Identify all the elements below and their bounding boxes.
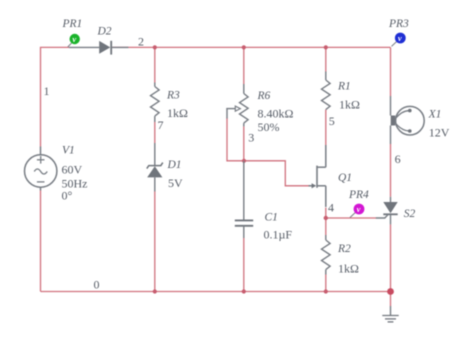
svg-text:V1: V1 (62, 145, 75, 157)
svg-text:1kΩ: 1kΩ (338, 262, 359, 276)
svg-text:2: 2 (138, 35, 144, 49)
junction bottom bus / ground (387, 288, 394, 295)
svg-text:S2: S2 (404, 208, 416, 220)
wire R6 bottom to wiper node (243, 126, 245, 160)
svg-text:3: 3 (248, 131, 254, 145)
transistor Q1 JFET (309, 145, 326, 207)
junction top bus / R1 (324, 45, 328, 49)
svg-text:1kΩ: 1kΩ (167, 106, 188, 120)
svg-text:0.1µF: 0.1µF (264, 228, 293, 242)
wire top bus: V1 to D2 anode (41, 47, 70, 146)
svg-text:0°: 0° (62, 189, 73, 203)
wire top bus: D2 cathode to PR3 corner (111, 46, 390, 48)
wire Q1 source to node 4 (325, 208, 327, 218)
resistor R1 (321, 72, 330, 110)
svg-text:R3: R3 (166, 90, 180, 102)
junction bottom bus / R2 branch (324, 289, 328, 293)
SCR S2 (376, 197, 398, 225)
resistor R2 (321, 235, 330, 275)
svg-text:R6: R6 (257, 90, 271, 102)
V1 AC source (25, 147, 57, 191)
svg-text:PR4: PR4 (348, 189, 369, 201)
svg-text:R1: R1 (337, 81, 351, 93)
wire C1 to bottom bus (243, 238, 245, 292)
svg-text:PR3: PR3 (388, 18, 409, 30)
svg-text:1kΩ: 1kΩ (339, 98, 360, 112)
svg-text:Q1: Q1 (338, 172, 352, 184)
wire R6 wiper to Q1 gate (227, 118, 310, 186)
svg-text:D2: D2 (97, 26, 112, 38)
wire bottom bus to ground (390, 292, 392, 307)
svg-text:8.40kΩ: 8.40kΩ (258, 107, 294, 121)
svg-text:50%: 50% (258, 120, 280, 134)
svg-text:X1: X1 (428, 109, 442, 121)
wire net 4: node 4 to S2 gate (326, 217, 376, 219)
junction bottom bus / D1 branch (153, 289, 157, 293)
zener diode D1 (147, 143, 163, 192)
wire R2 to bottom bus (325, 275, 327, 292)
wire left branch V1 to bottom bus (40, 191, 42, 292)
junction wiper node (242, 159, 246, 163)
svg-text:v: v (72, 34, 76, 44)
junction bottom bus / C1 branch (242, 289, 246, 293)
wire net 2: top bus to R3 (154, 47, 156, 82)
wire net 5: top bus to R1 (325, 47, 327, 71)
Q1 gate arrowhead (312, 183, 317, 188)
lamp X1 (391, 96, 425, 144)
resistor R3 (151, 83, 160, 123)
svg-text:6: 6 (395, 152, 401, 166)
svg-text:R2: R2 (337, 243, 351, 255)
svg-text:v: v (357, 204, 361, 214)
wire net 7: R3 to D1 (154, 122, 156, 143)
junction node 4 (324, 216, 328, 220)
wire bottom bus (41, 291, 391, 293)
ground (382, 306, 398, 322)
potentiometer R6 (240, 84, 249, 126)
svg-text:1: 1 (44, 84, 50, 98)
svg-text:60V: 60V (62, 163, 83, 177)
svg-text:7: 7 (158, 118, 164, 132)
wire wiper gray stub (226, 108, 228, 119)
junction top bus / R3 (153, 45, 157, 49)
svg-text:5: 5 (329, 114, 335, 128)
wire right branch S2 to bottom bus (390, 224, 392, 291)
svg-text:0: 0 (94, 278, 100, 292)
capacitor C1 (235, 220, 253, 238)
svg-text:v: v (398, 33, 402, 43)
probe PR1 (68, 34, 80, 47)
svg-text:D1: D1 (167, 159, 182, 171)
wire top bus to R6 (243, 47, 245, 84)
diode D2 (69, 41, 128, 55)
wire D1 to bottom bus (154, 192, 156, 292)
wire right branch X1 to S2 (390, 144, 392, 197)
svg-text:4: 4 (328, 201, 334, 215)
junction top bus / R6 (242, 45, 246, 49)
svg-text:C1: C1 (265, 212, 278, 224)
wire node 4 to R2 (325, 218, 327, 235)
svg-text:12V: 12V (429, 126, 450, 140)
svg-text:PR1: PR1 (62, 18, 83, 30)
wire right branch down from PR3 corner to X1 (390, 47, 392, 96)
R6 wiper arrow (226, 106, 240, 111)
probe PR3 (392, 33, 406, 47)
svg-text:5V: 5V (168, 176, 183, 190)
probe PR4 (350, 204, 364, 218)
wire wiper node to C1 (243, 161, 245, 221)
wire R1 to Q1 drain (325, 110, 327, 145)
